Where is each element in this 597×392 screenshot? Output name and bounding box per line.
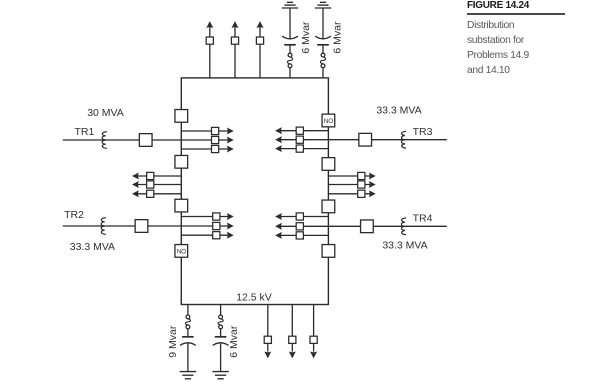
svg-text:TR3: TR3 [413,126,433,138]
svg-text:6 Mvar: 6 Mvar [332,21,344,54]
svg-text:TR4: TR4 [413,212,433,224]
svg-text:NO: NO [177,248,186,255]
svg-text:6 Mvar: 6 Mvar [228,325,240,358]
svg-text:NO: NO [324,118,333,125]
svg-text:TR1: TR1 [75,126,95,138]
svg-text:30 MVA: 30 MVA [87,107,124,119]
svg-text:12.5 kV: 12.5 kV [236,292,272,304]
svg-text:33.3 MVA: 33.3 MVA [70,241,115,253]
svg-text:6 Mvar: 6 Mvar [300,21,312,54]
svg-text:33.3 MVA: 33.3 MVA [376,105,421,117]
svg-text:33.3 MVA: 33.3 MVA [382,239,427,251]
svg-text:9 Mvar: 9 Mvar [167,325,179,358]
svg-text:TR2: TR2 [64,209,84,221]
